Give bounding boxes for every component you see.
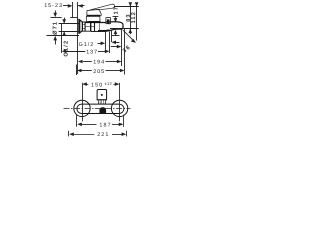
wall line A (finished wall) xyxy=(72,2,74,18)
dim 112 vertical line xyxy=(136,3,138,41)
diverter knob xyxy=(106,18,111,24)
handle base trapezoid front xyxy=(98,100,106,104)
svg-text:G1/2: G1/2 xyxy=(79,42,95,48)
221 extension right xyxy=(126,131,128,137)
dim 83 top arrow xyxy=(129,2,133,6)
dimension row 194 xyxy=(78,60,83,64)
wall line B (escutcheon face) xyxy=(77,2,79,74)
body capsule xyxy=(77,104,124,113)
221 extension left xyxy=(68,131,70,137)
top reference line from lever tip xyxy=(114,6,139,8)
horizontal centerline dash-dot xyxy=(64,108,131,110)
dim 112 top arrow xyxy=(135,2,139,6)
dim chain G1/2 inlet upper arrow xyxy=(62,19,66,24)
dim chain Ø71 upper shaft xyxy=(55,11,57,14)
spout height dimension arrows xyxy=(115,17,117,20)
dim 83 vertical line xyxy=(130,3,132,35)
mixer body thin division xyxy=(99,22,101,31)
dim chain Ø71 lower arrow xyxy=(53,36,57,41)
outlet vertical ext small xyxy=(111,30,113,43)
svg-text:187: 187 xyxy=(99,123,111,129)
svg-text:G1/2: G1/2 xyxy=(64,40,70,57)
svg-text:112: 112 xyxy=(131,11,137,24)
mixer body top bold line xyxy=(85,22,106,24)
shower outlet dome front xyxy=(99,107,106,113)
union nut xyxy=(82,22,85,31)
handle base box xyxy=(86,16,100,21)
spout outlet flange lens xyxy=(106,30,111,32)
dimension 15-23 arrow left xyxy=(78,4,83,8)
svg-text:150: 150 xyxy=(91,83,103,89)
205 right extension line xyxy=(124,28,126,75)
svg-text:194: 194 xyxy=(93,60,105,66)
svg-text:Ø71: Ø71 xyxy=(52,21,58,35)
svg-text:17: 17 xyxy=(113,6,119,15)
187 extension left xyxy=(76,115,78,127)
dimension row 137 xyxy=(62,50,67,54)
diverter knob dark core xyxy=(107,19,110,23)
connection nut box xyxy=(85,22,91,31)
dimension 15-23 line left shaft xyxy=(63,5,69,7)
right escutcheon circle xyxy=(111,100,127,116)
dimension 15-23 right shaft xyxy=(78,5,84,7)
inlet pipe bottom line / extension xyxy=(59,31,79,33)
dimension row 187 xyxy=(77,123,82,127)
187 extension right xyxy=(123,115,125,127)
inlet pipe top line / extension xyxy=(59,23,79,25)
dim chain G1/2 inlet lower arrow xyxy=(62,31,66,36)
svg-text:±12: ±12 xyxy=(105,81,113,86)
dim chain Ø71 upper arrow xyxy=(53,13,57,18)
G1/2 bottom outlet label arrow xyxy=(98,43,102,45)
svg-text:221: 221 xyxy=(97,132,109,138)
dimension row 221 xyxy=(69,132,74,136)
escutcheon cone xyxy=(79,19,83,33)
Ø71 extension line top xyxy=(51,17,62,19)
vertical centerline left xyxy=(82,83,84,122)
handle front box xyxy=(97,90,107,100)
shower outlet extension line right xyxy=(109,31,111,53)
shower outlet extension line left xyxy=(105,31,107,53)
dim 83 bottom arrow xyxy=(129,29,133,34)
dimension row 150±12 xyxy=(82,82,87,86)
36 diagonal leader xyxy=(123,30,135,42)
svg-text:205: 205 xyxy=(93,69,105,75)
spout underside reference line for 83 xyxy=(110,28,139,30)
svg-text:137: 137 xyxy=(86,50,98,56)
dimension 15-23 arrow right xyxy=(68,4,73,8)
dimension row 205 xyxy=(76,65,78,76)
mixer body bold ring xyxy=(94,22,96,31)
mixer body left edge xyxy=(90,22,92,31)
outlet bottom short line xyxy=(112,35,120,37)
handle wedge bottom bold xyxy=(87,15,100,17)
left escutcheon circle xyxy=(74,100,90,116)
mixer body bottom line xyxy=(91,31,106,33)
cartridge rosette dark band xyxy=(89,21,101,22)
callout left arrow at outlet xyxy=(111,41,116,45)
callout right arrow at spout tip xyxy=(111,46,117,48)
spout xyxy=(106,22,123,32)
svg-text:15-23: 15-23 xyxy=(44,3,63,9)
escutcheon cone face bold xyxy=(79,19,81,33)
body bottom thick segment xyxy=(98,30,111,32)
handle wedge body xyxy=(87,10,101,16)
dim 17 extension line xyxy=(113,16,119,18)
dim chain Ø71 lower shaft xyxy=(55,40,57,45)
handle dot xyxy=(101,94,103,96)
handle lever stick xyxy=(90,4,115,10)
dim chain G1/2 inlet upper shaft xyxy=(64,18,66,21)
vertical centerline right xyxy=(119,83,121,122)
194 right extension line xyxy=(121,30,123,67)
extension line for 137 left xyxy=(61,23,63,53)
Ø71 extension line bottom xyxy=(47,35,80,37)
